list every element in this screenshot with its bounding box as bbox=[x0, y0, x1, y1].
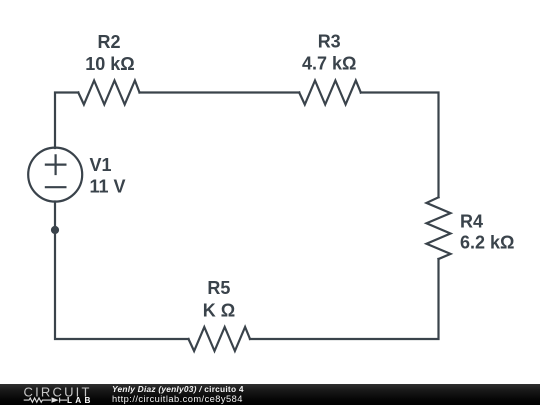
V1 minus sign bbox=[46, 186, 66, 188]
wire bottom-left (R5 to V1 bottom) bbox=[55, 202, 189, 340]
voltage source V1 circle bbox=[28, 148, 82, 202]
svg-text:V1: V1 bbox=[90, 155, 112, 175]
footer bar bbox=[0, 384, 540, 405]
resistor R3 bbox=[299, 81, 361, 105]
svg-text:R3: R3 bbox=[318, 32, 341, 52]
svg-text:11 V: 11 V bbox=[90, 177, 126, 197]
svg-text:LAB: LAB bbox=[67, 396, 94, 405]
svg-text:4.7 kΩ: 4.7 kΩ bbox=[302, 54, 356, 74]
node junction dot bbox=[51, 226, 59, 234]
wire top-left (V1 top to R2) bbox=[55, 93, 78, 149]
svg-text:R2: R2 bbox=[97, 32, 120, 52]
svg-text:R5: R5 bbox=[207, 278, 230, 298]
resistor R2 bbox=[78, 81, 139, 105]
resistor R5 bbox=[189, 327, 251, 351]
wire right-bottom (R4 to bottom rail to R5) bbox=[250, 259, 439, 339]
svg-text:10 kΩ: 10 kΩ bbox=[85, 54, 134, 74]
logo resistor and diode line bbox=[24, 398, 67, 403]
V1 plus sign bbox=[46, 155, 66, 174]
svg-text:6.2 kΩ: 6.2 kΩ bbox=[460, 233, 514, 253]
svg-text:R4: R4 bbox=[460, 212, 483, 232]
svg-text:K Ω: K Ω bbox=[203, 301, 235, 321]
logo diode triangle bbox=[52, 397, 59, 402]
CircuitLab logo bbox=[0, 384, 100, 405]
wire top-middle (R2 to R3) bbox=[140, 91, 300, 93]
wire top-right and right side down to R4 bbox=[361, 93, 439, 198]
footer credit text bbox=[111, 383, 113, 385]
resistor R4 bbox=[427, 197, 451, 259]
